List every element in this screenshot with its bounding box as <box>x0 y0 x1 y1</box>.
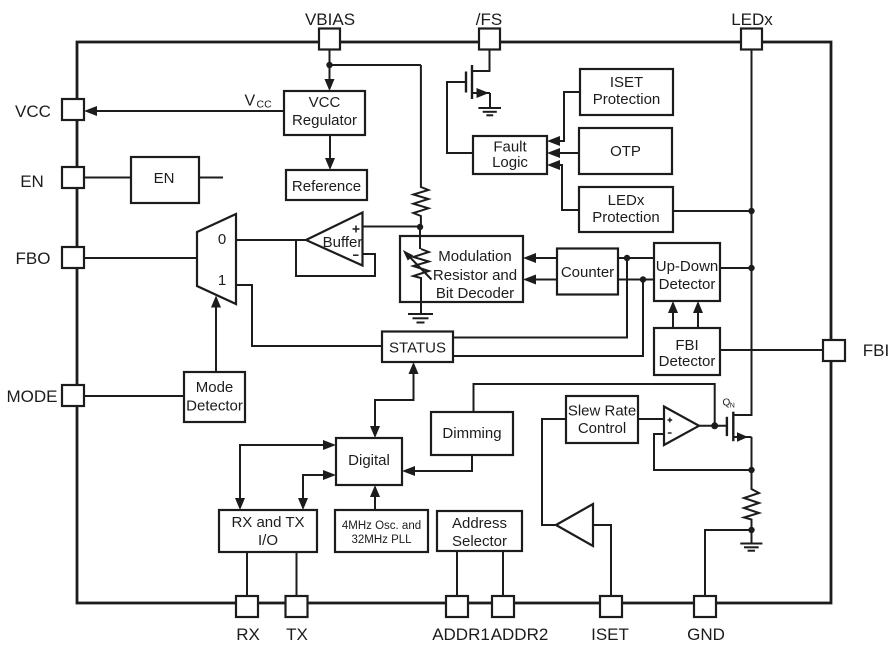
svg-text:I/O: I/O <box>258 532 278 549</box>
ground below modulation resistor <box>408 314 433 323</box>
label LEDx <box>731 10 773 29</box>
svg-text:CC: CC <box>257 99 273 111</box>
wire LEDx pin down to QN drain <box>751 50 753 417</box>
wire VBIAS pin to node <box>329 50 331 66</box>
svg-text:/FS: /FS <box>476 10 502 29</box>
svg-text:Slew Rate: Slew Rate <box>568 403 636 420</box>
wire Slew Rate Control to op-amp + <box>639 418 664 420</box>
op-amp U1 buffer <box>306 213 363 266</box>
block Address Selector <box>437 511 522 551</box>
svg-text:ADDR1: ADDR1 <box>432 625 490 644</box>
wire STATUS to counter lower node <box>453 280 643 357</box>
svg-text:MODE: MODE <box>7 387 58 406</box>
svg-text:GND: GND <box>687 625 725 644</box>
ground below R2 <box>740 544 762 551</box>
wire Counter to Up-Down Detector (lower) <box>618 279 654 281</box>
svg-text:FBI: FBI <box>863 341 889 360</box>
svg-text:ISET: ISET <box>591 625 629 644</box>
label GND <box>687 625 725 644</box>
svg-text:ADDR2: ADDR2 <box>491 625 549 644</box>
block Digital <box>336 438 402 485</box>
block OTP <box>579 128 672 174</box>
block STATUS <box>382 332 453 363</box>
node QN source <box>748 467 754 473</box>
wire Digital to RX TX IO (left pair B) <box>298 470 336 510</box>
block Mode Detector <box>184 372 245 422</box>
svg-text:OTP: OTP <box>610 143 641 160</box>
wire Counter to Modulation block (arrow left, lower) <box>523 275 557 285</box>
label mux 0 <box>218 231 226 248</box>
wire FBI Detector to Up-Down Detector (arrow up, right) <box>693 301 703 328</box>
pin ADDR1 <box>446 596 468 617</box>
resistor R2 (QN source) <box>744 470 759 530</box>
svg-text:Detector: Detector <box>659 276 716 293</box>
svg-text:Detector: Detector <box>659 353 716 370</box>
label /FS <box>476 10 502 29</box>
label VCC <box>15 102 51 121</box>
svg-text:V: V <box>245 93 256 110</box>
wire VBIAS node to top resistor <box>330 64 421 66</box>
pin /FS <box>479 29 500 50</box>
svg-text:Fault: Fault <box>493 139 527 156</box>
svg-text:Modulation: Modulation <box>438 248 511 265</box>
svg-text:Counter: Counter <box>561 264 614 281</box>
transistor QN (output NMOS) <box>727 412 752 470</box>
wire VCC Regulator to VCC pin (arrow left) <box>84 106 284 116</box>
wire STATUS to counter upper node <box>453 258 627 338</box>
wire Counter to Modulation block (arrow left, upper) <box>523 253 557 263</box>
svg-text:32MHz PLL: 32MHz PLL <box>351 534 412 546</box>
wire EN block output stub <box>199 177 223 179</box>
wire R2 bottom to ground <box>751 530 753 543</box>
svg-text:Selector: Selector <box>452 533 507 550</box>
pin GND <box>694 596 716 617</box>
svg-text:RX and TX: RX and TX <box>231 514 304 531</box>
svg-text:Control: Control <box>578 420 626 437</box>
pin FBI <box>823 340 845 361</box>
svg-text:Bit Decoder: Bit Decoder <box>436 285 514 302</box>
block Dimming <box>431 412 513 455</box>
wire buffer feedback loop <box>296 240 375 276</box>
node buffer + input <box>417 224 423 230</box>
ground below M1 <box>478 108 501 115</box>
svg-text:STATUS: STATUS <box>389 340 446 357</box>
pin MODE <box>62 385 84 406</box>
block EN <box>131 157 199 203</box>
label MODE <box>7 387 58 406</box>
label ADDR2 <box>491 625 549 644</box>
wire node to GND pin <box>705 530 752 596</box>
pin RX <box>236 596 258 617</box>
svg-text:Detector: Detector <box>186 398 243 415</box>
wire mux 0 input to buffer output <box>236 239 306 241</box>
svg-text:1: 1 <box>218 272 226 289</box>
svg-text:TX: TX <box>286 625 308 644</box>
svg-text:N: N <box>730 403 735 410</box>
pin TX <box>286 596 308 617</box>
node op-amp output <box>711 422 718 429</box>
wire Counter to Up-Down Detector (upper) <box>618 257 654 259</box>
node up-down junction <box>748 265 754 271</box>
label FBI <box>863 341 889 360</box>
pin ADDR2 <box>492 596 514 617</box>
pin ISET <box>600 596 622 617</box>
svg-text:4MHz Osc. and: 4MHz Osc. and <box>342 520 421 532</box>
wire buffer + input to node <box>363 226 421 228</box>
block 4MHz Osc and 32MHz PLL <box>335 510 428 552</box>
label mux 1 <box>218 272 226 289</box>
wire RX TX IO to RX pin <box>246 552 248 596</box>
svg-text:Protection: Protection <box>592 209 660 226</box>
svg-text:Protection: Protection <box>593 91 661 108</box>
svg-text:ISET: ISET <box>610 74 643 91</box>
pin VCC <box>62 99 84 120</box>
svg-text:0: 0 <box>218 231 226 248</box>
svg-text:Dimming: Dimming <box>442 425 501 442</box>
block Counter <box>557 249 618 295</box>
wire mux 1 input to STATUS <box>236 285 382 346</box>
svg-text:Resistor and: Resistor and <box>433 267 517 284</box>
svg-text:VCC: VCC <box>15 102 51 121</box>
label Vcc <box>245 93 273 111</box>
label VBIAS <box>305 10 355 29</box>
wire STATUS to Digital (arrows both ends) <box>370 362 419 438</box>
resistor R3 variable modulation resistor <box>403 249 432 313</box>
wire FBI Detector to Up-Down Detector (arrow up, left) <box>668 301 678 328</box>
wire Digital to 4MHz oscillator (arrow up) <box>370 485 380 510</box>
node counter upper <box>624 255 630 261</box>
wire RX TX IO to TX pin <box>296 552 298 596</box>
op-amp U2 (gate driver) <box>664 407 699 446</box>
svg-text:FBI: FBI <box>675 337 698 354</box>
wire Address Selector to ADDR1 pin <box>456 551 458 596</box>
wire ISET Protection to Fault Logic (arrow left) <box>547 92 580 146</box>
node LEDx protection junction <box>748 208 754 214</box>
resistor R1 (VBIAS to buffer node) <box>413 65 428 227</box>
label QN <box>723 398 735 410</box>
pin FBO <box>62 247 84 268</box>
svg-text:Mode: Mode <box>196 379 234 396</box>
wire LEDx Protection to LEDx line <box>673 210 752 212</box>
block Slew Rate Control <box>566 396 638 443</box>
svg-text:Logic: Logic <box>492 154 528 171</box>
block Modulation Resistor and Bit Decoder <box>400 236 523 302</box>
svg-text:EN: EN <box>154 170 175 187</box>
block FBI Detector <box>654 328 720 375</box>
wire VCC Regulator to Reference (arrow down) <box>325 135 335 170</box>
label RX <box>236 625 260 644</box>
wire VBIAS node to VCC Regulator (arrow down) <box>325 65 335 91</box>
wire Dimming top to op-amp output node <box>474 384 715 426</box>
wire Up-Down Detector to LEDx line <box>720 267 752 269</box>
block Up-Down Detector <box>654 243 720 301</box>
wire MODE pin to Mode Detector <box>84 395 184 397</box>
node counter lower <box>640 276 646 282</box>
wire Mode Detector to mux select (arrow up) <box>211 296 221 372</box>
svg-text:LEDx: LEDx <box>731 10 773 29</box>
wire EN pin to EN block <box>84 177 130 179</box>
wire ISET buffer output to Slew Rate Control <box>542 419 566 525</box>
label TX <box>286 625 308 644</box>
block ISET Protection <box>580 69 673 115</box>
mux FBO selector <box>197 214 236 304</box>
svg-text:Digital: Digital <box>348 452 390 469</box>
chip outline border <box>77 42 831 603</box>
svg-text:EN: EN <box>20 172 44 191</box>
wire FBI Detector to FBI pin <box>720 349 823 351</box>
svg-text:LEDx: LEDx <box>608 192 645 209</box>
node R2 bottom <box>748 527 754 533</box>
transistor M1 (/FS NMOS) <box>466 65 490 107</box>
pin VBIAS <box>319 29 340 50</box>
svg-text:Regulator: Regulator <box>292 112 357 129</box>
wire node into modulation resistor <box>419 227 421 249</box>
wire LEDx Protection to Fault Logic (arrow left) <box>547 160 579 210</box>
wire ISET pin to buffer input <box>593 525 611 596</box>
triangle buffer ISET <box>556 504 593 546</box>
wire /FS pin to transistor drain <box>472 50 490 72</box>
wire QN source feedback to op-amp - <box>654 434 752 470</box>
wire M1 gate to Fault Logic <box>447 82 473 153</box>
wire Digital to RX TX IO (left pair A) <box>235 440 336 510</box>
node VBIAS branch <box>326 62 332 68</box>
wire FBO pin to mux <box>84 257 197 259</box>
wire OTP to Fault Logic (arrow left) <box>547 148 579 158</box>
block Fault Logic <box>473 136 547 174</box>
svg-text:Up-Down: Up-Down <box>656 258 719 275</box>
svg-text:VCC: VCC <box>309 94 341 111</box>
block RX and TX IO <box>219 510 317 552</box>
svg-text:VBIAS: VBIAS <box>305 10 355 29</box>
svg-text:Reference: Reference <box>292 178 361 195</box>
svg-text:FBO: FBO <box>16 249 51 268</box>
label ISET <box>591 625 629 644</box>
pin EN <box>62 167 84 188</box>
label ADDR1 <box>432 625 490 644</box>
label EN <box>20 172 44 191</box>
wire Dimming to Digital (arrows both ends) <box>402 445 477 476</box>
svg-text:RX: RX <box>236 625 260 644</box>
svg-text:Address: Address <box>452 515 507 532</box>
wire Address Selector to ADDR2 pin <box>502 551 504 596</box>
label FBO <box>16 249 51 268</box>
block VCC Regulator <box>284 91 365 135</box>
block LEDx Protection <box>579 187 673 232</box>
svg-text:Buffer: Buffer <box>323 234 363 251</box>
block Reference <box>286 170 367 200</box>
wire op-amp output to QN gate <box>699 425 726 427</box>
pin LEDx <box>741 29 762 50</box>
